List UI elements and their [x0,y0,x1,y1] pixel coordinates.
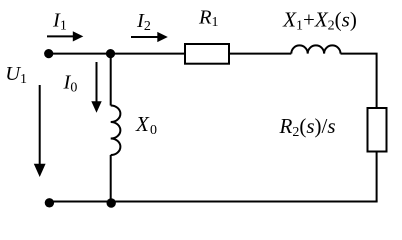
node: bottom-left terminal [45,198,54,207]
wire branch: junction down to X0 coil [110,54,112,106]
node: bottom junction [107,198,116,207]
wire top: coil to top-right corner [341,54,377,107]
inductor X0 [111,106,121,156]
svg-text:R2(s)/s: R2(s)/s [279,114,336,140]
svg-text:X1+X2(s): X1+X2(s) [282,7,357,33]
resistor R1 [185,44,229,64]
resistor R2(s)/s [368,108,387,152]
wire branch: X0 coil to bottom wire [110,155,112,202]
node: top junction [106,49,115,58]
arrow I2 [131,32,168,42]
wire bottom: right corner to left terminal [49,201,377,203]
inductor X1+X2(s) [291,45,340,53]
svg-text:X0: X0 [135,112,157,138]
wire top: left terminal to junction [49,53,111,55]
arrow I0 [91,62,101,113]
svg-text:I0: I0 [63,72,78,96]
svg-text:R1: R1 [198,7,219,31]
svg-text:I2: I2 [136,10,151,34]
wire top: R1 to coil [230,53,291,55]
arrow I1 [47,31,83,41]
arrow U1 [34,85,46,177]
wire right: R2 box to bottom-right corner [376,153,378,202]
svg-text:U1: U1 [5,63,27,87]
wire top: junction to R1 [111,53,185,55]
svg-text:I1: I1 [52,10,67,34]
node: top-left terminal [44,49,53,58]
